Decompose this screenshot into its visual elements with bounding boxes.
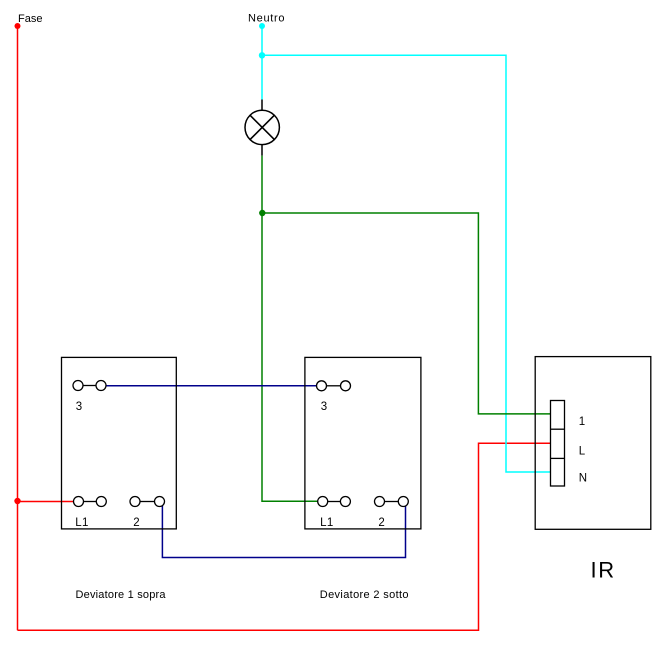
wire cyan Neutro vertical to lamp xyxy=(261,26,263,100)
wire cyan branch to IR N terminal xyxy=(262,55,551,472)
switch Deviatore 2 terminal 2 pair xyxy=(375,497,409,507)
switch Deviatore 1 terminal 2 pair xyxy=(130,497,165,507)
svg-text:L1: L1 xyxy=(320,517,334,529)
svg-text:1: 1 xyxy=(579,416,585,428)
svg-text:3: 3 xyxy=(321,401,327,413)
module IR terminal strip xyxy=(551,401,565,487)
lamp E1 cross xyxy=(250,115,274,139)
svg-text:Deviatore 2 sotto: Deviatore 2 sotto xyxy=(320,589,409,601)
wire red bottom run to IR xyxy=(18,443,551,630)
switch Deviatore 2 terminal L1 pair xyxy=(318,497,351,507)
svg-text:3: 3 xyxy=(76,401,82,413)
wire green lamp to Deviatore 2 L1 xyxy=(262,156,318,502)
svg-text:IR: IR xyxy=(591,558,616,583)
module IR box xyxy=(535,357,651,530)
switch Deviatore 1 box xyxy=(62,357,177,529)
wire blue between terminals 2 xyxy=(162,504,405,557)
switch Deviatore 2 terminal 3 pair xyxy=(317,381,351,391)
svg-text:L1: L1 xyxy=(75,517,89,529)
junction cyan neutral branch xyxy=(259,52,265,58)
node Fase terminal dot xyxy=(15,23,21,29)
junction red at L1 branch xyxy=(14,498,20,504)
switch Deviatore 2 box xyxy=(305,357,421,529)
switch Deviatore 1 terminal L1 pair xyxy=(74,497,107,507)
svg-text:2: 2 xyxy=(133,517,139,529)
svg-text:Fase: Fase xyxy=(18,13,42,25)
wire red Fase vertical left xyxy=(17,26,19,630)
svg-text:N: N xyxy=(579,472,587,484)
junction green branch xyxy=(259,210,265,216)
node Neutro terminal dot xyxy=(259,23,265,29)
lamp E1 bottom lead xyxy=(261,145,263,156)
lamp E1 circle xyxy=(245,110,279,144)
switch Deviatore 1 terminal 3 pair xyxy=(73,381,106,391)
svg-text:Deviatore 1 sopra: Deviatore 1 sopra xyxy=(76,589,167,601)
wire red branch to L1 of Deviatore 1 xyxy=(18,501,74,503)
svg-text:L: L xyxy=(579,445,586,457)
svg-text:2: 2 xyxy=(378,517,384,529)
wire green branch to IR terminal 1 xyxy=(262,213,551,414)
svg-text:Neutro: Neutro xyxy=(248,13,285,25)
lamp E1 top lead xyxy=(261,100,263,111)
wire blue between terminals 3 xyxy=(106,385,317,387)
